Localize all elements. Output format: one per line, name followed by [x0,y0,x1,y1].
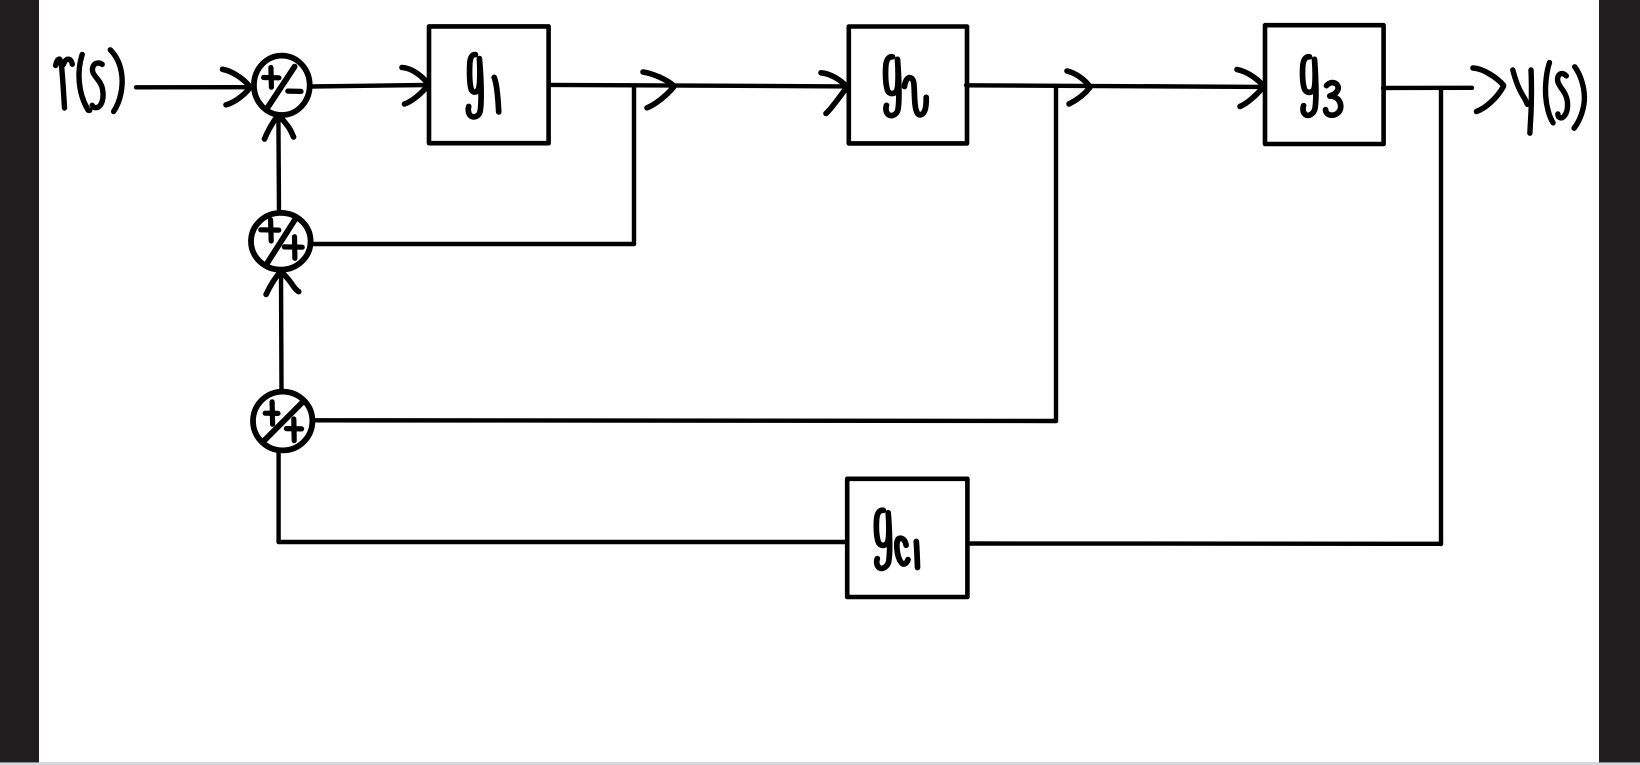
node r(s) input label [56,50,123,112]
arrowhead into G1 [402,68,428,105]
wire S3 up to S2 [279,273,284,391]
block Gc1 [847,479,967,597]
arrowhead into S2 from below [266,272,299,295]
summing junction S2 [251,213,311,270]
label g3 [1303,57,1341,116]
wire S1 to block G1 [310,85,426,87]
S1 plus sign [264,68,279,88]
left black sidebar [0,0,39,762]
S3 plus upper-left [265,402,278,424]
block G2 [849,27,967,144]
right black sidebar [1599,0,1640,762]
S1 minus sign [288,88,301,94]
arrowhead mid between G1 junction and G2 [643,72,674,108]
S3 plus lower-right [286,419,301,441]
wire G3 branch down to Gc1 output side [969,541,1441,546]
label g1 [468,55,498,117]
S2 plus lower-right [284,237,302,259]
block G3 [1265,25,1384,144]
wire G2 to block G3 [966,85,1261,87]
bottom grey strip [0,762,1640,765]
wire S2 up to S1 [276,117,281,212]
summing junction S1 [254,56,310,115]
S2 plus upper-left [261,220,279,241]
wire Gc1 output to S3 bottom [279,540,847,544]
arrowhead mid between G2 junction and G3 [1067,71,1090,104]
arrowhead into G2 [821,73,847,114]
junction branch after G1 [632,86,636,244]
wire r(s) to summing junction S1 [136,85,250,90]
arrowhead into S1 from below [265,115,294,139]
junction branch after G3 [1439,88,1443,544]
node y(s) output label [1513,63,1585,134]
arrowhead into y(s) [1473,68,1504,112]
label gc1 [876,510,917,568]
wire G3 to output y(s) [1383,86,1472,91]
wire G1 to block G2 [549,85,845,87]
wire up from feedback into S3 [276,451,280,543]
junction branch after G2 [1054,86,1058,421]
arrowhead into G3 [1237,70,1263,107]
wire feedback branch to S3 [313,418,1056,423]
summing junction S3 [253,392,312,451]
label g2 [886,57,927,116]
wire feedback branch to S2 [311,242,634,246]
arrowhead into S1 [223,69,250,105]
block G1 [429,26,549,143]
